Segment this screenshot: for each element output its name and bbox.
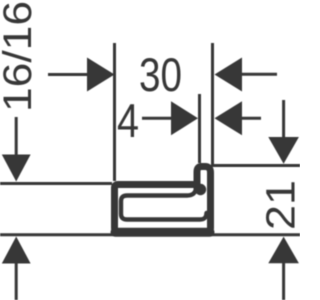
profile bottom wall thickening — [115, 228, 210, 237]
svg-text:4: 4 — [117, 94, 139, 147]
dim line 16/16 lower segment — [15, 262, 18, 300]
arrow 30 left (points right) — [87, 58, 115, 92]
dim line 16/16 upper segment — [15, 117, 18, 157]
extension line left of 30 dim — [113, 43, 116, 181]
extension line bottom full width — [0, 233, 300, 236]
dim line 30 right segment — [240, 73, 277, 76]
lip tip blob — [195, 184, 206, 195]
svg-text:16/16: 16/16 — [0, 1, 40, 112]
arrow 30 right (points left) — [215, 58, 243, 92]
extension line right horizontal — [212, 164, 300, 167]
arrow 16/16 top (points down) — [2, 155, 31, 182]
svg-text:21: 21 — [258, 180, 301, 230]
dim line 21 lower segment — [282, 261, 285, 300]
arrow 4 right (points left) — [215, 101, 243, 135]
arrow 16/16 bottom (points up) — [2, 237, 31, 264]
dim line 21 upper segment — [282, 100, 285, 140]
extension line upper left horizontal — [0, 182, 112, 185]
arrow 4 left (points right) — [171, 101, 198, 135]
profile inner contour — [121, 189, 207, 220]
arrow 21 bottom (points up) — [268, 237, 299, 264]
svg-text:30: 30 — [139, 48, 182, 101]
extension line right of 30 dim — [211, 43, 214, 167]
arrow 21 top (points down) — [268, 137, 299, 164]
dim line 4 right segment — [240, 117, 261, 120]
profile outer contour (wall bar cross-section) — [115, 167, 211, 232]
dim line 4 left segment — [142, 117, 172, 120]
extension line left of 4 dim — [198, 94, 201, 163]
dim line 30 left segment — [48, 73, 89, 76]
